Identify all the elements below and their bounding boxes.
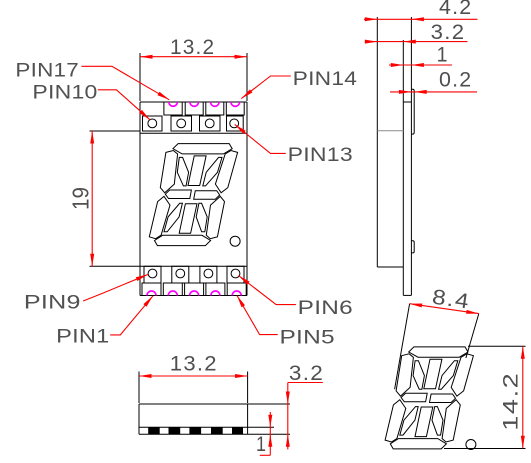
svg-text:19: 19 bbox=[68, 187, 94, 210]
dim 14.2: dimension line bbox=[522, 346, 524, 448]
hole PIN10 bbox=[148, 119, 157, 128]
half-hole arc PIN14 bbox=[231, 102, 240, 106]
segment J bbox=[424, 359, 442, 389]
side view pin bump top bbox=[411, 89, 414, 134]
bottom view top edge (ext right for 3.2) bbox=[139, 403, 290, 405]
svg-text:13.2: 13.2 bbox=[170, 36, 215, 59]
side view face line bbox=[402, 40, 404, 295]
segment G1 bbox=[401, 393, 427, 402]
dim 8.4: dimension line bbox=[410, 304, 479, 314]
svg-text:3.2: 3.2 bbox=[431, 21, 466, 44]
dim 19: top extension line bbox=[90, 130, 141, 132]
pad PIN7 bbox=[200, 266, 217, 283]
half-hole arc PIN15 bbox=[211, 102, 220, 106]
top pad PIN16 bbox=[185, 102, 203, 115]
hole PIN7 bbox=[204, 269, 213, 278]
leader PIN17 bbox=[81, 66, 169, 100]
side view internal gray line bbox=[377, 130, 403, 132]
interior horizontal line bottom (extends left as 19-dim extension) bbox=[90, 265, 248, 267]
segment B bbox=[215, 151, 237, 193]
dim 3.2 bottom leader bbox=[288, 382, 323, 384]
leader PIN6 bbox=[239, 276, 296, 305]
side view bottom of back part bbox=[377, 266, 403, 268]
interior horizontal line top bbox=[140, 132, 247, 134]
bottom pad PIN3 bbox=[185, 283, 204, 296]
dim 4.2 bbox=[364, 18, 478, 20]
bottom pad contact 2 bbox=[169, 427, 181, 434]
segment A bbox=[173, 144, 232, 154]
leader PIN13 bbox=[235, 124, 286, 153]
half-hole arc PIN17 bbox=[169, 102, 178, 106]
hole PIN12 bbox=[205, 119, 214, 128]
leader PIN10 bbox=[98, 90, 150, 120]
segment K bbox=[203, 157, 222, 186]
side view bottom cap bbox=[403, 294, 411, 296]
svg-text:PIN9: PIN9 bbox=[24, 292, 81, 314]
hole PIN11 bbox=[177, 119, 186, 128]
bottom pad contact 3 bbox=[189, 427, 201, 434]
bottom view outline bbox=[138, 404, 140, 434]
segment F bbox=[160, 151, 177, 193]
bottom pad PIN5 bbox=[227, 283, 246, 296]
side view pin bump bottom bbox=[411, 241, 414, 253]
side view step at body top bbox=[403, 101, 411, 103]
segment D bbox=[155, 235, 211, 245]
segment G1 bbox=[165, 190, 191, 199]
hole PIN13 bbox=[230, 119, 239, 128]
leader PIN5 bbox=[237, 296, 278, 335]
bottom view bottom edge (ext right) bbox=[139, 433, 290, 435]
segment H bbox=[413, 361, 424, 390]
dim 3.2 bbox=[365, 41, 468, 43]
svg-text:PIN13: PIN13 bbox=[288, 144, 353, 166]
half-hole arc PIN5 bbox=[232, 291, 241, 296]
segment M bbox=[415, 407, 433, 437]
svg-text:1: 1 bbox=[256, 433, 267, 456]
half-hole arc PIN3 bbox=[190, 291, 199, 296]
segment L bbox=[164, 203, 182, 232]
leader PIN14 bbox=[241, 76, 290, 99]
dim 1 bottom bbox=[269, 412, 271, 455]
side view pin surface / extension bbox=[410, 17, 412, 295]
svg-text:8.4: 8.4 bbox=[431, 286, 472, 314]
bottom view pad line (ext right for 1) bbox=[139, 426, 274, 428]
segment D bbox=[390, 439, 446, 449]
top pad PIN17 bbox=[164, 102, 182, 115]
half-hole arc PIN1 bbox=[147, 291, 156, 296]
side view back edge / extension bbox=[376, 17, 378, 267]
dim 1 bbox=[389, 64, 452, 66]
segment C bbox=[206, 196, 224, 238]
pad PIN12 bbox=[200, 116, 221, 131]
segment C bbox=[442, 400, 460, 442]
svg-text:1: 1 bbox=[437, 43, 449, 66]
segment N bbox=[196, 203, 207, 232]
dim 13.2 bottom: dimension line bbox=[139, 375, 248, 377]
svg-text:0.2: 0.2 bbox=[439, 68, 472, 91]
top pad PIN14 bbox=[226, 102, 244, 115]
dim 0.2 bbox=[390, 91, 477, 93]
pad PIN8 bbox=[172, 266, 189, 283]
dim 13.2 top: extension lines bbox=[139, 53, 141, 101]
segment E bbox=[149, 196, 170, 238]
dim 8.4: extension lines bbox=[395, 304, 410, 390]
segment G2 bbox=[194, 191, 220, 200]
segment J bbox=[188, 156, 206, 186]
svg-text:PIN14: PIN14 bbox=[293, 68, 358, 90]
svg-text:PIN6: PIN6 bbox=[298, 297, 353, 319]
segment N bbox=[432, 407, 443, 436]
segment F bbox=[396, 354, 413, 396]
bottom pad contact 5 bbox=[232, 427, 243, 434]
pad PIN10 bbox=[143, 116, 163, 131]
leader PIN1 bbox=[110, 296, 153, 335]
bottom pad contact 1 bbox=[148, 427, 160, 434]
component body outline bbox=[139, 102, 141, 296]
svg-text:13.2: 13.2 bbox=[170, 353, 218, 376]
svg-text:3.2: 3.2 bbox=[289, 362, 324, 385]
pad PIN9 bbox=[144, 266, 161, 283]
segment B bbox=[451, 354, 473, 396]
dim 14.2: extension lines bbox=[468, 345, 526, 347]
segment K bbox=[439, 361, 458, 390]
segment E bbox=[385, 400, 406, 442]
bottom pad contact 4 bbox=[211, 427, 223, 434]
pad PIN13 bbox=[227, 116, 244, 131]
pad PIN11 bbox=[171, 116, 192, 131]
decimal point bbox=[466, 440, 476, 450]
svg-text:4.2: 4.2 bbox=[439, 0, 472, 19]
half-hole arc PIN16 bbox=[190, 102, 199, 106]
dim 13.2 top: dimension line bbox=[140, 56, 247, 58]
hole PIN6 bbox=[231, 269, 240, 278]
hole PIN8 bbox=[176, 269, 185, 278]
segment L bbox=[400, 407, 418, 436]
svg-text:PIN5: PIN5 bbox=[280, 327, 335, 349]
dim 13.2 bottom: extension lines bbox=[138, 372, 140, 404]
segment M bbox=[179, 204, 197, 234]
dim 19: dimension line bbox=[91, 131, 93, 266]
leader PIN9 bbox=[83, 274, 148, 301]
decimal point bbox=[230, 236, 240, 246]
bottom pad PIN1 bbox=[142, 283, 161, 296]
svg-text:14.2: 14.2 bbox=[499, 372, 522, 431]
half-hole arc PIN4 bbox=[211, 291, 220, 296]
segment H bbox=[177, 157, 188, 186]
pad PIN6 bbox=[227, 266, 244, 283]
bottom pad PIN4 bbox=[206, 283, 225, 296]
hole PIN9 bbox=[148, 269, 157, 278]
half-hole arc PIN2 bbox=[168, 291, 177, 296]
svg-text:PIN1: PIN1 bbox=[56, 326, 109, 348]
top pad PIN15 bbox=[206, 102, 224, 115]
bottom pad PIN2 bbox=[163, 283, 182, 296]
segment A bbox=[409, 347, 468, 357]
segment G2 bbox=[430, 394, 456, 403]
svg-text:PIN10: PIN10 bbox=[32, 82, 97, 104]
svg-text:PIN17: PIN17 bbox=[15, 59, 79, 81]
